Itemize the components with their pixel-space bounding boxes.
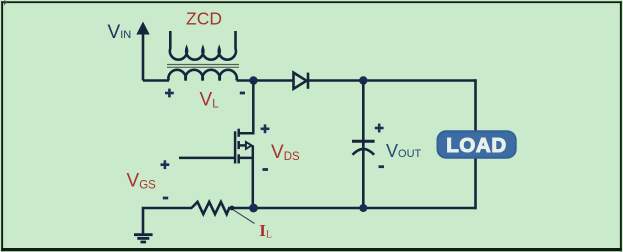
resistor Rs: [192, 202, 254, 214]
gate bar: [234, 131, 237, 163]
wire VIN to inductor: [143, 79, 169, 82]
wire LOAD to bottom right corner: [474, 158, 477, 209]
mosfet Q1: [235, 81, 253, 209]
transformer T1 ZCD winding: [170, 31, 236, 60]
wire right branch (top corner to LOAD): [474, 79, 477, 131]
ground: [134, 235, 153, 242]
source lead: [238, 145, 253, 208]
inductor L1 main winding: [168, 70, 236, 81]
transformer core: [167, 65, 239, 68]
junction drain node: [249, 76, 257, 84]
wire ground to resistor: [143, 208, 192, 234]
polarity + of VDS: [261, 124, 270, 133]
load box: [438, 131, 516, 157]
body arrow: [239, 144, 246, 147]
junction output node: [359, 76, 367, 84]
wire inductor to drain node: [237, 79, 295, 82]
channel segment drain: [237, 129, 240, 137]
node VIN arrow: [136, 22, 149, 81]
diode D1: [294, 73, 309, 89]
polarity + of VGS: [161, 160, 170, 169]
wire gate: [179, 157, 235, 160]
polarity + of VL: [165, 89, 174, 98]
junction source node: [249, 204, 258, 213]
polarity + of VOUT: [375, 124, 384, 133]
wire bottom right: [254, 207, 476, 210]
polarity - of VL: [240, 92, 245, 95]
polarity - of VGS: [163, 197, 168, 200]
drain lead: [238, 81, 253, 134]
polarity - of VDS: [263, 168, 269, 171]
wire diode to output node: [308, 79, 476, 82]
svg-text:LOAD: LOAD: [446, 134, 506, 157]
channel segment body: [237, 141, 240, 149]
channel segment source: [237, 154, 240, 163]
junction capacitor bottom node: [359, 204, 367, 212]
svg-text:ZCD: ZCD: [186, 9, 222, 29]
capacitor C1: [352, 81, 375, 209]
junction resistor-source node: [230, 206, 235, 211]
callout line IL: [234, 210, 255, 224]
polarity - of VOUT: [379, 165, 385, 168]
